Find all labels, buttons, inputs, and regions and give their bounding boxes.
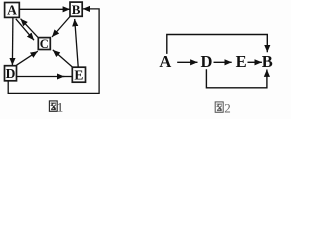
svg-text:E: E [74, 67, 83, 82]
wire A to B top rail fig2 [167, 35, 267, 54]
arrow E to C [53, 50, 72, 67]
node C [38, 37, 50, 51]
svg-text:A: A [7, 3, 17, 18]
svg-text:C: C [40, 37, 49, 51]
arrow E to B [75, 19, 79, 67]
svg-text:1: 1 [57, 99, 64, 114]
arrow E to B fig2 [248, 61, 262, 63]
wire D to B bottom rail fig2 [206, 69, 267, 88]
svg-text:B: B [262, 52, 273, 71]
arrow A to B [19, 8, 70, 10]
caption figure 2 glyph tu [215, 102, 223, 112]
arrow C to A [21, 19, 38, 38]
svg-text:E: E [236, 52, 247, 71]
caption figure 1 glyph tu [49, 101, 57, 111]
arrow A to C [16, 19, 34, 40]
svg-text:D: D [200, 52, 212, 71]
arrow D to E fig2 [214, 61, 232, 63]
arrow B to C [52, 17, 70, 38]
node A [5, 3, 20, 18]
arrow D to C [17, 51, 38, 65]
caption figure 2 number [224, 100, 231, 115]
node E [72, 67, 85, 82]
arrow A to D fig2 [177, 61, 197, 63]
svg-text:D: D [6, 66, 16, 81]
node D [5, 66, 17, 81]
svg-text:2: 2 [224, 100, 231, 115]
svg-text:A: A [159, 52, 171, 71]
arrow A to D [11, 18, 14, 66]
arrow D to E [17, 76, 72, 78]
node B [70, 2, 82, 17]
node B fig2 [262, 52, 273, 71]
node A fig2 [159, 52, 171, 71]
node D fig2 [200, 52, 212, 71]
node E fig2 [236, 52, 247, 71]
caption figure 1 number [57, 99, 64, 114]
wire D to B outer path [8, 9, 99, 94]
svg-text:B: B [72, 2, 81, 17]
